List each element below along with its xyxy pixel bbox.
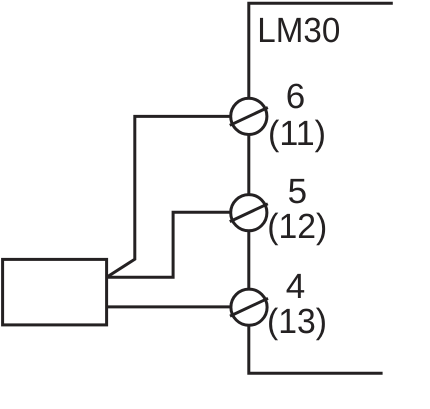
wire: supply rail (top horizontal, vertical bus, bottom horizontal)	[249, 3, 393, 373]
terminal 4 screw slash	[230, 298, 268, 316]
terminal 6 screw slash	[230, 108, 268, 126]
svg-text:(11): (11)	[268, 114, 326, 153]
svg-text:LM30: LM30	[257, 11, 340, 50]
svg-text:6: 6	[286, 77, 305, 116]
svg-text:(12): (12)	[267, 207, 327, 246]
wire: sensor box to terminal 4	[107, 305, 240, 308]
terminal 5 screw slash	[230, 204, 268, 222]
terminal 5 (screw terminal circle)	[231, 195, 267, 231]
wire: sensor box to terminal 5	[107, 212, 240, 277]
svg-text:(13): (13)	[267, 302, 327, 341]
wire: sensor box to terminal 6 (diagonal, vertical, horizontal)	[107, 116, 240, 277]
svg-text:4: 4	[286, 267, 305, 306]
terminal 4 (screw terminal circle)	[231, 289, 267, 325]
sensor box (component rectangle)	[3, 259, 107, 325]
svg-text:5: 5	[288, 172, 307, 211]
terminal 6 (screw terminal circle)	[231, 98, 267, 134]
